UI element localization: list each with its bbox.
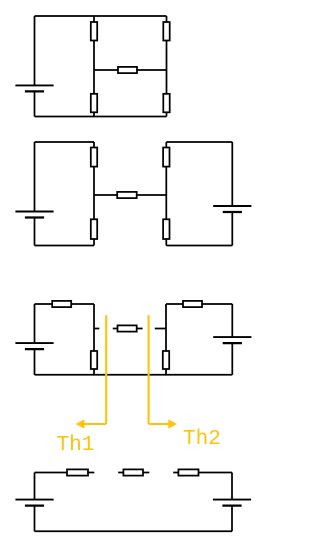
svg-text:Th1: Th1	[57, 434, 95, 457]
svg-text:Th2: Th2	[183, 428, 221, 451]
